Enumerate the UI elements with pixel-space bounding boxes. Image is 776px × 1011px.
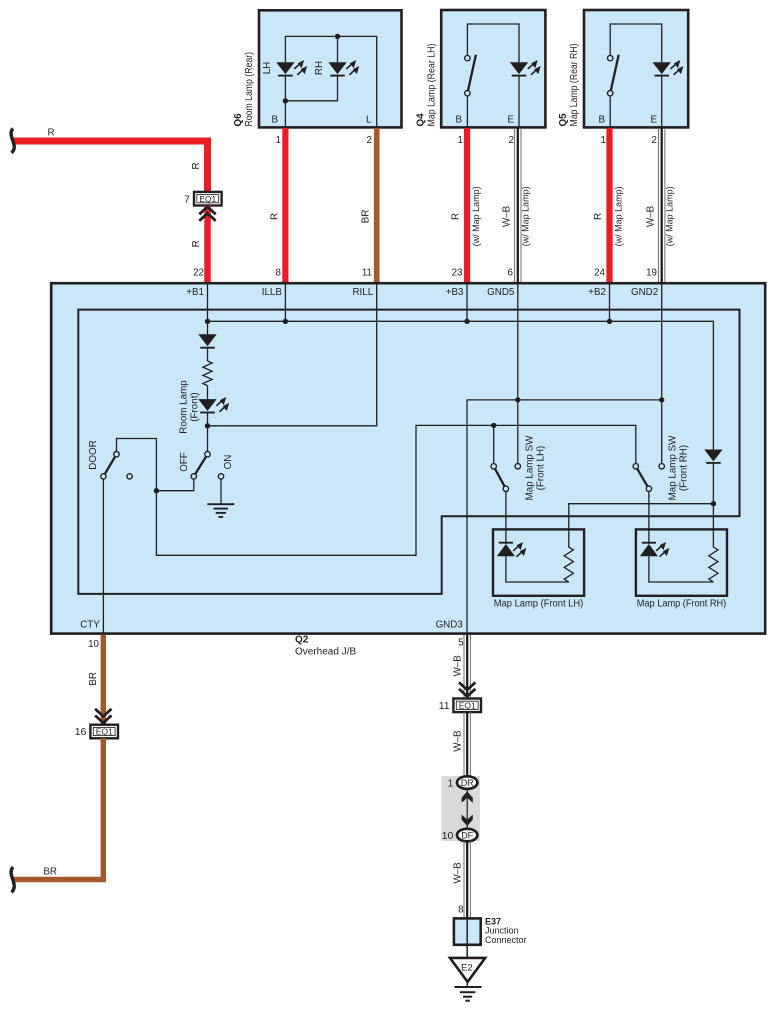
svg-text:Q4: Q4 (415, 113, 426, 127)
svg-text:Map Lamp (Rear LH): Map Lamp (Rear LH) (426, 43, 437, 126)
contact pivot room lamp switch (205, 452, 210, 457)
svg-text:RH: RH (314, 61, 325, 75)
svg-text:Map Lamp SW: Map Lamp SW (667, 435, 678, 501)
wire Q6 RH column lower and cross link (285, 76, 337, 101)
wire W-B GND5 Q4 pin2 to pin6 (515, 128, 521, 284)
node +B2 bus (607, 319, 612, 324)
LED Map Lamp (Front LH) (497, 542, 527, 557)
svg-text:1: 1 (276, 135, 281, 146)
wire +B3 stub (466, 284, 468, 321)
svg-text:11: 11 (362, 268, 372, 279)
lamp box Map Lamp (Front RH) (636, 529, 727, 595)
svg-text:E: E (507, 115, 514, 126)
svg-text:(w/ Map Lamp): (w/ Map Lamp) (471, 186, 481, 246)
svg-text:W–B: W–B (453, 862, 464, 884)
svg-text:L: L (366, 115, 372, 126)
svg-text:EQ1: EQ1 (199, 194, 216, 204)
svg-text:16: 16 (75, 726, 87, 738)
wires inside LH lamp box (506, 556, 569, 582)
contact OFF (191, 474, 196, 479)
wire R power feed top-left (14, 141, 208, 192)
svg-text:EQ1: EQ1 (96, 727, 113, 737)
diode room lamp chain (198, 334, 216, 347)
svg-text:DOOR: DOOR (88, 440, 99, 469)
svg-text:+B2: +B2 (588, 287, 606, 298)
svg-text:R: R (451, 213, 462, 220)
wire GND net (467, 400, 662, 633)
wires inside RH lamp box (649, 556, 714, 582)
svg-text:2: 2 (509, 135, 514, 146)
LED Map Lamp (Front RH) (640, 542, 670, 557)
wire W-B GND3 below box (464, 635, 470, 699)
wire LED feed inside RH lamp box (648, 528, 650, 544)
wire LH resistor feed (569, 504, 714, 547)
node switch feed junction (154, 488, 159, 493)
svg-text:E2: E2 (461, 962, 473, 973)
node Q6 bus junction (335, 34, 340, 39)
wire +B1 chain (207, 321, 209, 334)
wire Q5 top bus (610, 24, 662, 62)
node map lamp SW LH feed (491, 423, 496, 428)
LED Q4 (510, 60, 541, 76)
wire right diode column (712, 463, 714, 547)
svg-text:10: 10 (88, 639, 99, 650)
resistor RH lamp box (709, 547, 718, 582)
svg-text:23: 23 (452, 268, 463, 279)
svg-text:GND2: GND2 (631, 287, 658, 298)
wire Q6 LH column lower (284, 76, 286, 127)
svg-text:OFF: OFF (179, 452, 190, 472)
svg-text:Map Lamp (Rear RH): Map Lamp (Rear RH) (569, 44, 580, 127)
svg-text:ILLB: ILLB (262, 287, 283, 298)
wire +B2 stub (609, 284, 611, 321)
svg-text:(w/ Map Lamp): (w/ Map Lamp) (665, 186, 675, 246)
svg-text:CTY: CTY (80, 620, 100, 631)
terminal DR pin 1 (447, 776, 477, 789)
ground room lamp switch ON (207, 504, 234, 517)
wire through E37 to E2 (466, 918, 468, 957)
wire W-B GND2 Q5 pin2 to pin19 (659, 128, 665, 284)
resistor LH lamp box (564, 547, 573, 582)
node GND5 net (515, 397, 520, 402)
node Q6 lower junction (283, 98, 288, 103)
contact ON (218, 474, 223, 479)
wire R ILLB Q6 pin1 to pin8 (282, 128, 288, 284)
wire LED to switch pivot (207, 413, 209, 455)
svg-text:B: B (271, 115, 278, 126)
wire Q4 LED to pin E (518, 76, 520, 127)
svg-text:1: 1 (601, 135, 606, 146)
LED RH (Q6) (328, 60, 359, 76)
svg-text:8: 8 (276, 268, 282, 279)
arrow male terminal up (462, 791, 473, 803)
svg-text:19: 19 (646, 268, 657, 279)
wire R below EQ1 to pin 22 (204, 206, 211, 285)
svg-text:DR: DR (461, 778, 474, 788)
svg-text:8: 8 (458, 904, 464, 915)
LED Q5 (653, 60, 684, 76)
wire resistor feed inside RH lamp box (712, 528, 714, 548)
wire resistor feed inside LH lamp box (568, 528, 570, 548)
contact DOOR bottom (101, 474, 106, 479)
svg-text:B: B (598, 115, 605, 126)
svg-text:Q6: Q6 (233, 113, 244, 127)
switch Q5 (open) (608, 55, 619, 96)
svg-text:(w/ Map Lamp): (w/ Map Lamp) (614, 186, 624, 246)
wire R +B2 Q5 pin1 to pin24 (606, 128, 612, 284)
svg-text:24: 24 (594, 268, 605, 279)
node room lamp LED bottom junction (205, 423, 210, 428)
wire Q6 top bus (285, 36, 376, 127)
svg-text:B: B (455, 115, 462, 126)
wire OFF contact to junction (156, 479, 193, 491)
contact DOOR top (114, 452, 119, 457)
splice arrows down pair above EQ1 pin11 (459, 682, 475, 696)
svg-text:BR: BR (43, 867, 57, 878)
switch Map Lamp SW (Front LH) (491, 425, 521, 544)
LED Room Lamp (Front) (198, 397, 229, 413)
wire BR below EQ1 to left edge (14, 738, 104, 879)
wire GND5 column (517, 284, 519, 464)
svg-text:R: R (593, 213, 604, 220)
switch Map Lamp SW (Front RH) (633, 464, 664, 544)
svg-text:6: 6 (508, 268, 514, 279)
wire BR RILL Q6 pin2 to pin11 (374, 128, 380, 284)
junction block Q2 Overhead J/B box (51, 283, 765, 633)
wire LED junction to RILL column (208, 284, 377, 426)
wire ILLB stub (284, 284, 286, 321)
component Q4 Map Lamp (Rear LH) box (441, 10, 545, 127)
wire W-B below EQ1 pin11 (464, 712, 470, 777)
ground symbol bottom (455, 987, 482, 1001)
connector EQ1 pin 7 (184, 192, 221, 206)
svg-text:7: 7 (184, 193, 190, 205)
svg-text:+B1: +B1 (186, 287, 204, 298)
svg-text:W–B: W–B (646, 205, 657, 227)
svg-text:(Front): (Front) (190, 392, 201, 421)
svg-text:2: 2 (367, 135, 372, 146)
svg-text:1: 1 (458, 135, 463, 146)
connector EQ1 pin 11 (439, 699, 481, 713)
svg-text:W–B: W–B (502, 205, 513, 227)
svg-text:GND3: GND3 (436, 620, 464, 631)
node +B1 bus (205, 319, 210, 324)
wire E2 to ground (466, 982, 468, 987)
node +B3 bus (464, 319, 469, 324)
svg-text:LH: LH (262, 62, 273, 75)
svg-text:BR: BR (361, 210, 372, 224)
wire W-B below DF to E37 (464, 841, 470, 918)
svg-text:22: 22 (193, 268, 204, 279)
svg-text:(Front LH): (Front LH) (536, 446, 547, 491)
connector EQ1 pin 16 (75, 725, 118, 739)
diode map lamp feed (right) (704, 450, 722, 463)
svg-text:5: 5 (458, 637, 464, 648)
svg-text:11: 11 (439, 700, 450, 712)
wire Q4 switch to pin B (466, 96, 468, 127)
break symbol (squiggle) bottom-left (11, 867, 14, 892)
svg-text:(w/ Map Lamp): (w/ Map Lamp) (521, 186, 531, 246)
wire Q6 RH column top (337, 36, 339, 62)
svg-text:Overhead J/B: Overhead J/B (295, 646, 356, 657)
svg-text:Connector: Connector (485, 935, 527, 945)
wire Q4 top bus (467, 24, 519, 62)
wire Q5 LED to pin E (661, 76, 663, 127)
wire BR from CTY pin (101, 635, 106, 725)
wire Q5 switch to pin B (609, 96, 611, 127)
switch DOOR blade (103, 454, 116, 476)
svg-text:Q2: Q2 (295, 635, 309, 646)
inner bus outline polygon (78, 310, 739, 594)
wire ON contact to ground (220, 479, 222, 503)
svg-text:R: R (191, 240, 202, 247)
svg-text:Q5: Q5 (558, 113, 569, 127)
component Q5 Map Lamp (Rear RH) box (584, 10, 688, 127)
wire between DR and DF (466, 789, 468, 828)
wire R +B3 Q4 pin1 to pin23 (464, 128, 470, 284)
splice arrows down pair above EQ1 pin16 (95, 709, 111, 723)
wire top bus +B1 to right diode (208, 284, 714, 450)
svg-text:BR: BR (88, 672, 99, 686)
arrow female terminal down (462, 815, 473, 827)
svg-text:Room Lamp (Rear): Room Lamp (Rear) (244, 52, 255, 127)
node diode resistor junction (711, 501, 716, 506)
svg-text:E: E (650, 115, 657, 126)
node ILLB bus (283, 319, 288, 324)
LED LH (Q6) (276, 60, 307, 76)
ground point E2 triangle (450, 958, 485, 982)
svg-text:10: 10 (442, 830, 454, 842)
junction connector E37 box (454, 918, 481, 944)
svg-text:W–B: W–B (453, 655, 464, 677)
svg-text:+B3: +B3 (446, 287, 464, 298)
svg-text:Map Lamp SW: Map Lamp SW (525, 435, 536, 501)
svg-text:(Front RH): (Front RH) (678, 445, 689, 491)
svg-text:R: R (191, 162, 202, 169)
svg-text:Room Lamp: Room Lamp (179, 380, 190, 434)
switch room lamp blade to OFF (194, 454, 208, 476)
lamp box Map Lamp (Front LH) (493, 529, 584, 595)
wire LED feed inside LH lamp box (505, 528, 507, 544)
switch Q4 (open) (465, 55, 476, 96)
terminal DF pin 10 (442, 829, 478, 842)
svg-text:ON: ON (223, 455, 234, 470)
svg-text:EQ1: EQ1 (459, 700, 476, 710)
wire DOOR bottom to CTY pin (102, 479, 104, 633)
svg-text:1: 1 (447, 777, 453, 789)
wire GND2 column (661, 284, 663, 464)
wire resistor to LED (207, 386, 209, 400)
svg-text:R: R (270, 213, 281, 220)
svg-text:Map Lamp (Front LH): Map Lamp (Front LH) (494, 599, 584, 610)
wire DOOR feed and map lamp switch feed (117, 425, 636, 555)
component Q6 Room Lamp (Rear) box (259, 10, 402, 127)
connector pass-through shade (441, 776, 480, 841)
wire diode to resistor (207, 348, 209, 361)
break symbol (squiggle) top-left (11, 129, 14, 153)
node GND2 net (659, 397, 664, 402)
svg-text:GND5: GND5 (487, 287, 515, 298)
svg-text:RILL: RILL (352, 287, 373, 298)
svg-text:R: R (47, 128, 54, 139)
svg-text:Map Lamp (Front RH): Map Lamp (Front RH) (637, 599, 727, 610)
contact unused middle (127, 474, 132, 479)
resistor room lamp chain (203, 361, 212, 386)
splice arrows up pair below EQ1 pin7 (199, 207, 215, 221)
svg-text:DF: DF (461, 831, 473, 841)
svg-text:2: 2 (652, 135, 657, 146)
svg-text:W–B: W–B (453, 730, 464, 752)
